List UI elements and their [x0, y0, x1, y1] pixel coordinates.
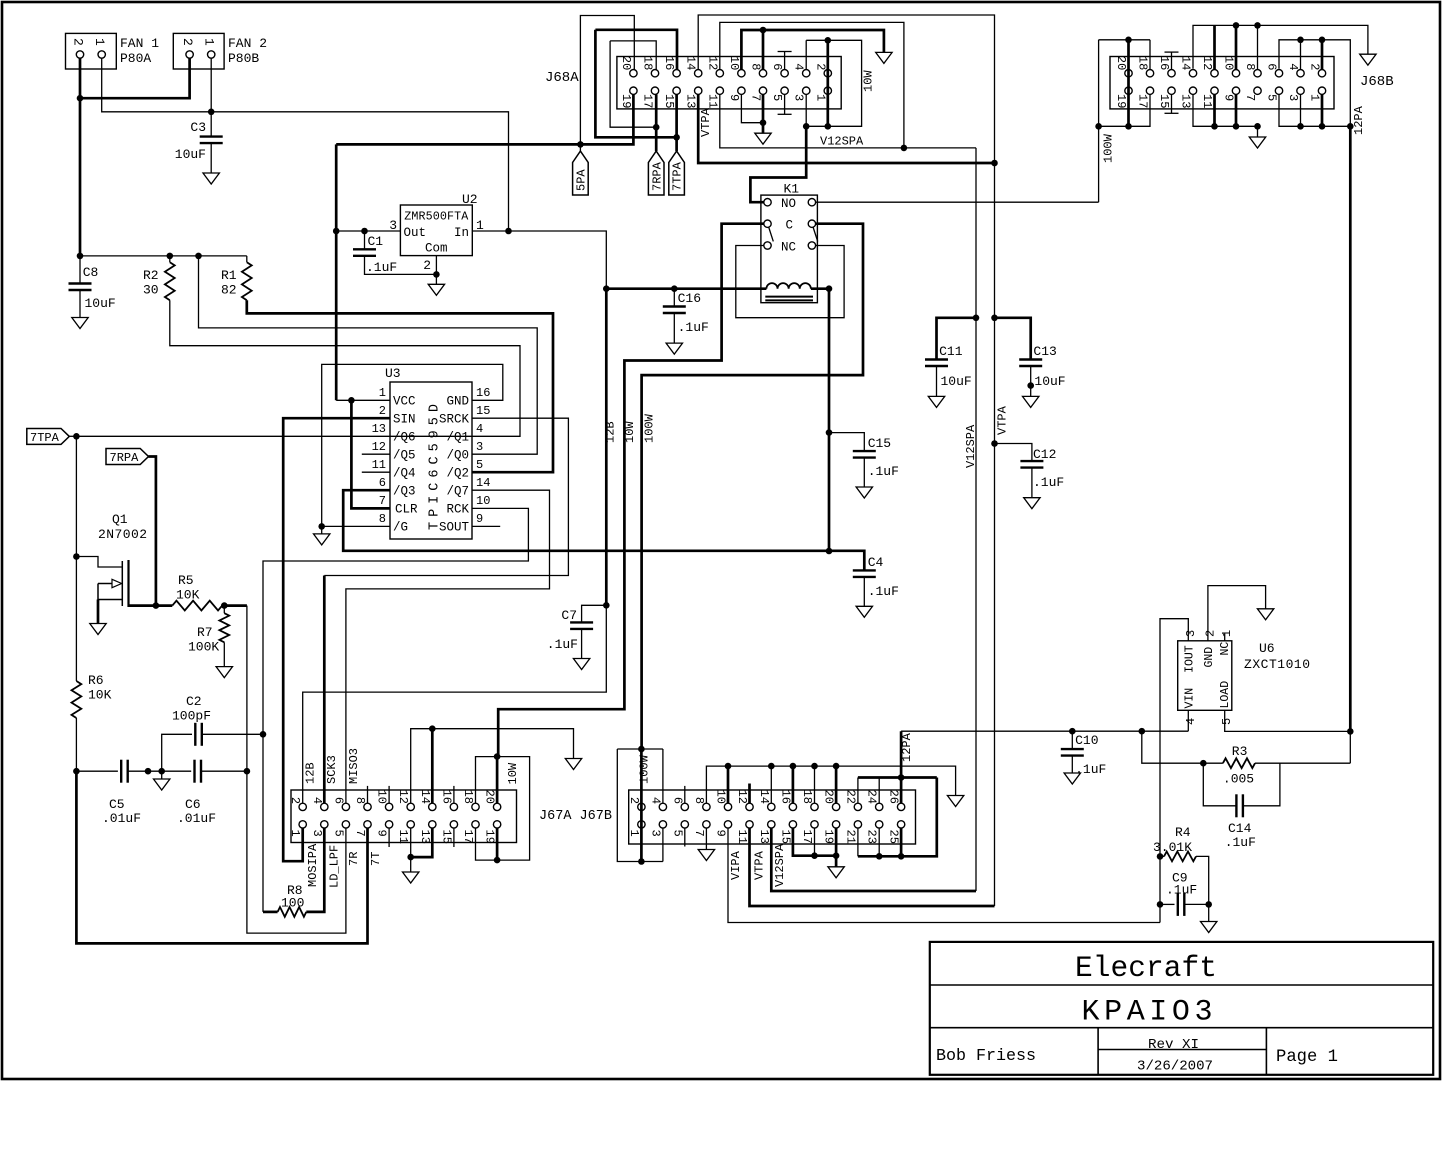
wire J68B pin12 riser	[1213, 25, 1216, 69]
svg-text:12: 12	[372, 440, 386, 454]
wire U3 /G	[322, 525, 390, 527]
wire 7RPA loop left leg	[610, 41, 656, 127]
net label 12B at J67A	[304, 762, 318, 784]
junction C7	[603, 602, 610, 609]
contact label C	[786, 219, 794, 233]
svg-text:10uF: 10uF	[941, 374, 972, 389]
svg-text:15: 15	[1157, 94, 1171, 108]
wire J67A pin11 to ground	[410, 828, 412, 872]
value C13 10uF	[1034, 374, 1065, 389]
label J68B	[1360, 74, 1394, 90]
regulator U2 ZMR500FTA	[400, 205, 472, 256]
title Bob Friess	[936, 1047, 1036, 1066]
wire J68A pins 2 1 column	[826, 40, 829, 126]
label U6	[1259, 641, 1275, 656]
capacitor C6 right lead	[201, 770, 247, 772]
wire U3 RCK to R8	[263, 508, 528, 912]
svg-text:13: 13	[684, 94, 698, 108]
stub J68B pin16	[1171, 52, 1173, 70]
wire K1 coil right to C4 node	[828, 289, 831, 551]
ground C10	[1064, 773, 1080, 784]
IC U3 TPIC6C595D	[390, 382, 472, 539]
net tag 7RPA right	[106, 449, 149, 466]
svg-text:/Q4: /Q4	[393, 467, 416, 481]
label R3	[1232, 744, 1248, 759]
svg-text:C7: C7	[561, 608, 577, 623]
wire V12SPA loop J68A pin12	[720, 22, 904, 147]
junction 5PA tag	[577, 141, 584, 148]
capacitor C2 left lead	[162, 734, 192, 771]
svg-text:U3: U3	[385, 366, 401, 381]
capacitor C11 bottom lead	[936, 366, 938, 396]
svg-text:6: 6	[770, 63, 784, 70]
label FAN 2	[228, 36, 267, 51]
label C16	[678, 291, 701, 306]
svg-text:2: 2	[813, 63, 827, 70]
svg-text:C14: C14	[1228, 821, 1252, 836]
wire J67B pins 15 17 19 bus	[793, 828, 836, 856]
svg-text:82: 82	[221, 283, 237, 298]
pin name GND U6	[1203, 647, 1216, 668]
svg-text:30: 30	[143, 283, 159, 298]
svg-text:9: 9	[1222, 94, 1236, 101]
wire Q1 drain	[129, 604, 156, 607]
capacitor C8 top lead	[79, 256, 81, 284]
value C6 .01uF	[177, 811, 216, 826]
svg-text:SIN: SIN	[393, 413, 416, 427]
svg-text:.1uF: .1uF	[1225, 835, 1256, 850]
svg-text:16: 16	[476, 386, 490, 400]
wire 7RPA loop J68A pin18	[610, 41, 656, 70]
svg-text:100K: 100K	[188, 640, 219, 655]
label R8	[287, 883, 303, 898]
wire 12B FAN1 pin1 to U2 In	[102, 58, 509, 231]
wire SCK3 riser to J67A pin4	[323, 576, 326, 804]
label C12	[1033, 447, 1056, 462]
svg-text:19: 19	[619, 94, 633, 108]
svg-text:V12SPA: V12SPA	[964, 424, 978, 468]
svg-text:8: 8	[1243, 63, 1257, 70]
svg-text:/Q1: /Q1	[446, 431, 469, 445]
svg-text:7: 7	[692, 830, 706, 837]
wire U3 CLR tie to VCC	[351, 400, 390, 508]
stub U3 SOUT	[472, 525, 500, 527]
svg-text:7TPA: 7TPA	[671, 161, 685, 191]
ground U2 Com	[428, 284, 444, 295]
wire J67B pin19 to ground	[835, 828, 838, 867]
svg-text:3: 3	[1286, 94, 1300, 101]
svg-text:J67A J67B: J67A J67B	[539, 809, 612, 824]
wire R8 to J67A pin3 LD_LPF	[306, 828, 324, 912]
svg-text:17: 17	[1136, 94, 1150, 108]
net label 7R	[347, 852, 361, 866]
junction Q1 drain 7RPA	[153, 602, 160, 609]
svg-text:P80A: P80A	[120, 51, 151, 66]
svg-text:LOAD: LOAD	[1219, 681, 1232, 709]
pin 1 U6	[1220, 630, 1234, 637]
svg-text:C2: C2	[186, 694, 202, 709]
svg-text:7RPA: 7RPA	[650, 161, 664, 191]
svg-text:CLR: CLR	[395, 503, 418, 517]
wire VTPA loop J68A pin14	[698, 15, 994, 163]
ground R7	[216, 667, 232, 678]
wire U6 IOUT down	[1160, 619, 1188, 923]
ground U6	[1257, 609, 1273, 620]
svg-text:20: 20	[822, 790, 836, 804]
resistor R6 bottom lead	[75, 718, 77, 771]
title Rev XI	[1148, 1037, 1199, 1053]
svg-text:MISO3: MISO3	[347, 748, 361, 784]
svg-text:25: 25	[887, 830, 901, 844]
svg-text:6: 6	[670, 797, 684, 804]
resistor R7 bottom lead	[223, 642, 225, 666]
value C8 10uF	[85, 296, 116, 311]
wire VTPA to J67B pin11	[750, 828, 995, 906]
wire J68A pin4 riser	[805, 40, 807, 69]
capacitor C14 left lead	[1203, 763, 1236, 806]
value R1 82	[221, 283, 237, 298]
svg-text:/Q5: /Q5	[393, 449, 416, 463]
svg-text:10K: 10K	[88, 688, 112, 703]
label K1	[784, 182, 800, 197]
svg-text:8: 8	[692, 797, 706, 804]
wire J67B pin3 riser	[662, 828, 664, 861]
wire V12SPA vertical	[975, 148, 977, 891]
wire U6 GND	[1208, 586, 1266, 641]
svg-text:GND: GND	[1203, 647, 1216, 668]
net tag 5PA	[573, 151, 589, 195]
pin numbers U3 left	[372, 386, 386, 526]
ground C15	[856, 487, 872, 498]
ground J68B top	[1360, 54, 1376, 65]
stub J67B pin6	[684, 786, 686, 803]
svg-text:C6: C6	[185, 797, 201, 812]
svg-text:5PA: 5PA	[575, 169, 589, 191]
capacitor C16	[663, 307, 686, 314]
label P80B	[228, 51, 259, 66]
value C11 10uF	[941, 374, 972, 389]
connector P80A FAN1	[66, 33, 117, 69]
svg-text:12: 12	[735, 790, 749, 804]
wire J67A pins 12 14 ground	[411, 729, 574, 804]
junction C6 right	[244, 768, 251, 775]
label ZMR500FTA	[404, 210, 469, 224]
ground J68A pins 7 9	[755, 133, 771, 144]
svg-text:2: 2	[1308, 63, 1322, 70]
wire 10W loop J67A pins 18 19 20	[476, 757, 530, 861]
value R7 100K	[188, 640, 219, 655]
wire J67A pin14 riser	[431, 729, 434, 804]
wire J68A pin15 to 7TPA tag	[675, 94, 678, 151]
svg-text:ZMR500FTA: ZMR500FTA	[404, 210, 469, 224]
label TPIC6C595D	[428, 404, 443, 530]
svg-text:SCK3: SCK3	[325, 755, 339, 784]
capacitor C8 bottom lead	[79, 290, 81, 318]
svg-text:1: 1	[92, 38, 107, 46]
svg-text:2N7002: 2N7002	[98, 527, 147, 542]
svg-text:15: 15	[439, 830, 453, 844]
wire J68B gnd bus top	[1193, 25, 1368, 68]
label Q1	[112, 512, 128, 527]
junction fan ground node	[77, 95, 84, 102]
wire J67B pin25 riser	[900, 828, 903, 856]
label C13	[1033, 344, 1056, 359]
svg-text:2: 2	[423, 258, 431, 273]
capacitor C15 bottom lead	[863, 458, 865, 487]
value C1 .1uF	[366, 260, 397, 275]
label U3	[385, 366, 401, 381]
svg-text:1: 1	[379, 386, 386, 400]
svg-text:/Q0: /Q0	[446, 449, 469, 463]
pin numbers J67B top row	[627, 790, 901, 805]
svg-text:10: 10	[727, 56, 741, 70]
pin name LOAD	[1219, 681, 1232, 709]
capacitor C16 top lead	[673, 289, 675, 307]
wire MISO3 U3 /Q7 to J67A pin6	[346, 490, 550, 803]
svg-text:9: 9	[714, 830, 728, 837]
ground J67B pins 15 17 19	[828, 867, 844, 878]
svg-text:21: 21	[843, 830, 857, 844]
stub U3 /Q5	[362, 453, 390, 455]
svg-text:4: 4	[310, 797, 324, 804]
ground C13	[1023, 396, 1039, 407]
svg-text:23: 23	[865, 830, 879, 844]
wire 12PA entry to J67B pin26	[900, 731, 903, 803]
capacitor C11	[937, 318, 977, 360]
wire 7TPA to U3 /Q6	[76, 435, 390, 437]
svg-text:11: 11	[1200, 94, 1214, 108]
capacitor C9	[1178, 893, 1185, 916]
junctions R4 C9	[1157, 853, 1164, 908]
stub J67A pin9	[388, 828, 390, 847]
net label 100W	[643, 413, 657, 443]
pin numbers U3 right	[476, 386, 490, 526]
wire 12B to K1 coil left	[606, 287, 766, 290]
svg-text:11: 11	[705, 94, 719, 108]
svg-text:3.01K: 3.01K	[1153, 840, 1192, 855]
svg-text:7TPA: 7TPA	[30, 431, 60, 445]
svg-text:Out: Out	[404, 226, 427, 240]
pin names U3 left	[393, 395, 418, 535]
svg-text:100W: 100W	[643, 413, 657, 443]
net label V12SPA	[964, 424, 978, 468]
svg-text:C11: C11	[939, 344, 963, 359]
svg-text:15: 15	[778, 830, 792, 844]
pin name Com U2	[425, 242, 448, 256]
svg-text:13: 13	[757, 830, 771, 844]
svg-text:.1uF: .1uF	[1075, 762, 1106, 777]
svg-text:2: 2	[1204, 630, 1218, 637]
tick J68A pin5	[778, 113, 792, 115]
wire J68B pin17 bus	[1099, 40, 1150, 127]
svg-text:3: 3	[792, 94, 806, 101]
svg-text:NC: NC	[781, 241, 796, 255]
svg-text:3/26/2007: 3/26/2007	[1137, 1059, 1213, 1075]
wire 100W riser to K1 NO	[1098, 126, 1100, 202]
capacitor C4 bottom lead	[863, 577, 865, 606]
net label LD_LPF	[328, 845, 342, 888]
svg-text:1: 1	[813, 94, 827, 101]
junction V12SPA	[901, 145, 908, 152]
connector J68B	[1110, 57, 1334, 109]
svg-text:16: 16	[778, 790, 792, 804]
capacitor C1 bottom lead	[365, 256, 437, 275]
capacitor C13	[995, 318, 1031, 360]
wire J68A pin7 to ground	[762, 94, 765, 133]
label R7	[197, 625, 213, 640]
junction U3 GND /G	[318, 523, 325, 530]
ground C8	[72, 318, 88, 329]
svg-text:5: 5	[1265, 94, 1279, 101]
svg-text:17: 17	[641, 94, 655, 108]
pin numbers J68A top row	[619, 56, 827, 71]
contact label NO	[781, 197, 796, 211]
svg-text:Com: Com	[425, 242, 448, 256]
label C7	[561, 608, 577, 623]
resistor R8 left lead	[263, 911, 278, 914]
wire K1 coil right	[811, 287, 829, 290]
wire 100W loop top	[617, 748, 663, 750]
svg-text:FAN 1: FAN 1	[120, 36, 159, 51]
svg-text:4: 4	[648, 797, 662, 804]
junction C2 RCK	[260, 731, 267, 738]
svg-text:9: 9	[476, 512, 483, 526]
svg-text:ZXCT1010: ZXCT1010	[1244, 657, 1310, 672]
pin numbers J68B bottom row	[1114, 94, 1322, 108]
net label MOSIPA	[306, 843, 320, 887]
wire U3 VCC	[336, 399, 390, 401]
wire 12PA to R3 right	[1349, 731, 1351, 763]
svg-text:/Q2: /Q2	[446, 467, 469, 481]
wire J68B pin9 riser	[1235, 94, 1238, 126]
wire V12SPA J68A pin11	[720, 94, 976, 148]
junctions coil row	[603, 285, 832, 292]
junction R6 C5	[73, 768, 80, 775]
value C5 .01uF	[102, 811, 141, 826]
wire U3 /Q3 to K1 coil and C4	[343, 490, 864, 570]
resistor R2	[165, 262, 175, 300]
junction R5 R7	[221, 602, 228, 609]
wire J68B 12PA loop top	[1279, 40, 1350, 127]
wire 7T to J67A pin7	[76, 771, 367, 943]
stub J67A pin8	[367, 786, 369, 803]
wire 100W K1 C right to J67B pin2	[642, 224, 863, 749]
svg-text:FAN 2: FAN 2	[228, 36, 267, 51]
connector P80B FAN2	[173, 33, 224, 69]
svg-text:18: 18	[461, 790, 475, 804]
svg-text:3: 3	[1184, 630, 1198, 637]
svg-text:10W: 10W	[506, 762, 520, 784]
ground C5 C6	[154, 779, 170, 790]
junctions 10W J68A	[803, 37, 831, 130]
wire 100W loop left	[617, 749, 663, 862]
stub J68B pin15	[1171, 94, 1173, 113]
wire J67A pin19 riser	[496, 828, 499, 860]
label C1	[368, 234, 384, 249]
wire to Q1 gate	[76, 557, 121, 568]
svg-text:10: 10	[375, 790, 389, 804]
junction 7TPA	[673, 134, 680, 141]
junctions pins 15 17 19	[811, 852, 839, 859]
capacitor C15 top lead	[829, 433, 864, 452]
junctions on VTPA	[991, 315, 998, 447]
value C7 .1uF	[547, 637, 578, 652]
svg-text:C: C	[786, 219, 794, 233]
svg-text:.01uF: .01uF	[102, 811, 141, 826]
capacitor C15	[853, 451, 876, 458]
svg-text:6: 6	[331, 797, 345, 804]
junctions 12PA bottom	[1297, 123, 1353, 130]
svg-text:8: 8	[353, 797, 367, 804]
wire FAN2 pin1	[210, 58, 212, 112]
svg-text:7: 7	[1243, 94, 1257, 101]
capacitor C3	[200, 137, 223, 144]
capacitor C2 right lead	[202, 733, 263, 735]
value C10 .1uF	[1075, 762, 1106, 777]
svg-text:3: 3	[310, 830, 324, 837]
svg-text:4: 4	[1184, 718, 1198, 725]
svg-text:6: 6	[1265, 63, 1279, 70]
wire J68A pin3 riser	[805, 94, 807, 126]
wire J67A pin13 to pin11	[411, 828, 433, 857]
tick J68B pin15	[1165, 112, 1179, 114]
svg-text:12PA: 12PA	[1352, 105, 1366, 135]
svg-text:R4: R4	[1175, 825, 1191, 840]
svg-text:/Q3: /Q3	[393, 485, 416, 499]
wire U2 Out to 5PA rail	[336, 230, 400, 232]
title Elecraft	[1075, 951, 1217, 985]
svg-text:20: 20	[483, 790, 497, 804]
svg-text:16: 16	[662, 56, 676, 70]
pin 1 U2	[476, 218, 484, 233]
svg-text:Bob Friess: Bob Friess	[936, 1047, 1036, 1066]
label U2	[462, 192, 478, 207]
svg-text:1: 1	[202, 38, 217, 46]
junction R4 C9	[1205, 901, 1212, 908]
resistor R5 right lead	[222, 604, 247, 607]
svg-text:SRCK: SRCK	[439, 413, 470, 427]
net label V12SPA	[820, 135, 864, 149]
svg-text:14: 14	[1179, 56, 1193, 70]
wire J68B pin8 riser	[1257, 25, 1259, 69]
capacitor C16 bottom lead	[673, 313, 675, 343]
value R6 10K	[88, 688, 112, 703]
svg-text:24: 24	[865, 790, 879, 804]
wire Q1 source to ground	[97, 600, 100, 624]
wire U6 pin4 VIN lead	[1187, 710, 1189, 731]
svg-text:9: 9	[375, 830, 389, 837]
value R4 3.01K	[1153, 840, 1192, 855]
ground C9	[1201, 922, 1217, 933]
relay K1 coil	[765, 283, 813, 300]
resistor R3	[1223, 758, 1255, 768]
value C4 .1uF	[868, 584, 899, 599]
risers J67B pins 10 14 16 18 20	[728, 766, 836, 803]
tick J68A pin6	[778, 51, 792, 53]
svg-text:J68A: J68A	[545, 70, 579, 86]
net label 100W at J68B	[1102, 133, 1116, 163]
title date	[1137, 1059, 1213, 1075]
label ZXCT1010	[1244, 657, 1310, 672]
wire MOSIPA U3 SIN to J67A pin1	[283, 418, 390, 861]
junction VCC CLR	[348, 397, 355, 404]
svg-text:19: 19	[1114, 94, 1128, 108]
capacitor C9 right lead	[1184, 903, 1208, 905]
wire 12B vertical	[605, 289, 608, 606]
svg-text:1: 1	[1220, 630, 1234, 637]
svg-text:C3: C3	[190, 120, 206, 135]
svg-text:7: 7	[379, 494, 386, 508]
